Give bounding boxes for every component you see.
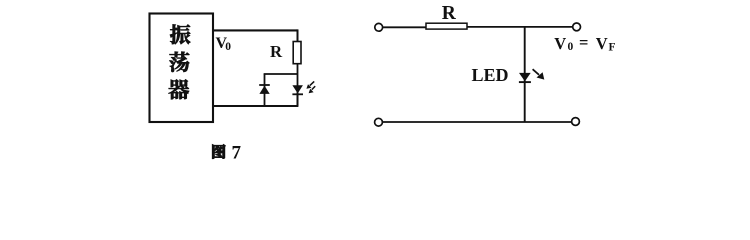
svg-text:R: R [270,42,283,61]
oscillator label char 器 [169,79,189,99]
LED light arrow (right circuit) [533,69,545,79]
LED (left circuit, conducts down) [292,85,303,94]
terminal top-right [573,23,581,31]
wire: bottom rail back to oscillator [213,93,298,106]
caption char 图 [212,145,225,159]
terminal bottom-left [375,118,383,126]
svg-text:=: = [579,33,588,52]
oscillator label char 振 [170,24,190,44]
svg-text:V: V [596,34,608,53]
resistor R (right, horizontal) [426,23,467,29]
wire: top rail right segment [467,26,573,28]
wire: oscillator top output to corner [213,29,298,31]
svg-text:7: 7 [232,143,242,164]
svg-text:F: F [609,42,616,54]
terminal top-left [375,23,383,31]
terminal bottom-right [572,118,580,126]
wire: left diode branch vertical [264,74,266,107]
LED (right circuit) [519,73,531,82]
LED light arrows (left circuit) [306,81,315,93]
svg-text:0: 0 [225,41,231,53]
wire: top rail left segment [383,26,426,28]
svg-text:R: R [442,3,457,24]
wire: corner down to resistor R top [297,29,299,41]
wire: diode network top rail [264,73,298,75]
svg-text:LED: LED [472,65,509,85]
svg-text:0: 0 [568,41,574,53]
svg-text:V: V [554,34,566,53]
wire: LED branch vertical [524,27,526,122]
wire: resistor bottom down through LED branch to bottom rail [297,64,299,106]
wire: bottom rail [383,121,572,123]
label V0 = VF [554,33,615,54]
oscillator box [150,14,214,123]
resistor R (left, vertical) [293,42,301,64]
diode D1 (left, conducts up) [259,85,270,94]
oscillator label char 荡 [169,52,189,72]
